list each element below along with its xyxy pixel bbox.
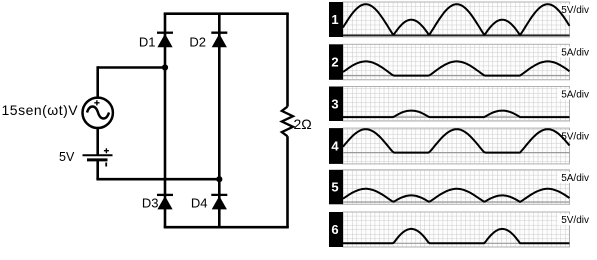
svg-text:1: 1	[331, 12, 338, 27]
diode D2	[211, 33, 227, 48]
scale label background panel 5	[558, 172, 590, 183]
svg-text:15sen(ωt)V: 15sen(ωt)V	[2, 102, 79, 118]
wire bottom rail	[164, 226, 289, 229]
channel number block 3	[329, 87, 343, 122]
wire top rail	[164, 12, 289, 15]
zero axis line panel 4	[343, 152, 570, 154]
scale label background panel 4	[558, 130, 590, 141]
wire source bottom horizontal	[96, 178, 219, 181]
zero axis line panel 1	[343, 34, 570, 36]
oscilloscope trace panel 4	[343, 128, 570, 164]
battery plus polarity mark	[104, 148, 109, 153]
wire right load branch upper segment	[286, 14, 289, 107]
svg-text:5A/div: 5A/div	[561, 90, 589, 101]
scale label background panel 2	[558, 47, 590, 58]
oscilloscope trace panel 2	[343, 44, 570, 80]
diode D3	[157, 195, 173, 210]
wire left bridge branch (D1/D3 leg)	[164, 14, 167, 228]
svg-text:2: 2	[331, 55, 338, 70]
svg-text:2Ω: 2Ω	[294, 116, 312, 132]
svg-text:D2: D2	[189, 34, 206, 49]
waveform trace 1	[343, 4, 570, 35]
scale label background panel 6	[558, 214, 590, 225]
AC source sine symbol	[87, 107, 109, 119]
svg-text:5V/div: 5V/div	[561, 5, 589, 16]
oscilloscope trace panel 1	[343, 2, 570, 37]
zero axis line panel 6	[343, 242, 570, 244]
wire battery to bottom horizontal	[96, 160, 99, 179]
oscilloscope trace panel 6	[343, 212, 570, 247]
waveform trace 4	[343, 129, 570, 152]
battery minus polarity mark	[105, 163, 107, 167]
svg-text:5: 5	[331, 180, 338, 195]
AC source plus polarity mark	[94, 100, 99, 105]
svg-text:5A/div: 5A/div	[561, 48, 589, 59]
channel number block 6	[329, 212, 343, 247]
wire source top horizontal	[98, 66, 165, 69]
scale label background panel 1	[558, 4, 590, 15]
wire right load branch lower segment	[286, 136, 289, 227]
svg-text:D1: D1	[139, 34, 156, 49]
node junction dot at source bottom / middle branch	[216, 176, 222, 182]
oscilloscope trace panel 3	[343, 87, 570, 122]
wire source vertical above AC source	[96, 66, 99, 97]
channel number block 2	[329, 44, 343, 80]
diode D1	[157, 33, 173, 48]
wire AC source to battery	[96, 128, 99, 155]
channel number block 5	[329, 170, 343, 205]
node junction dot at source top / left branch	[162, 64, 168, 70]
svg-text:4: 4	[331, 139, 339, 154]
svg-text:5V/div: 5V/div	[561, 131, 589, 142]
diode D4	[211, 195, 227, 210]
zero axis line panel 2	[343, 75, 570, 77]
waveform trace 5	[343, 189, 570, 202]
scale label background panel 3	[558, 89, 590, 100]
AC source V1 circle	[83, 98, 113, 128]
svg-text:D4: D4	[191, 195, 208, 210]
svg-text:D3: D3	[142, 195, 159, 210]
channel number block 4	[329, 128, 343, 164]
svg-text:3: 3	[331, 96, 338, 111]
battery BT1 5V long plate	[83, 154, 113, 156]
svg-text:5V/div: 5V/div	[561, 215, 589, 226]
battery BT1 5V short plate	[87, 158, 108, 161]
waveform trace 3	[343, 111, 570, 118]
channel number block 1	[329, 2, 343, 37]
oscilloscope trace panel 5	[343, 170, 570, 205]
waveform trace 2	[343, 61, 570, 75]
svg-text:5A/div: 5A/div	[561, 173, 589, 184]
zero axis line panel 3	[343, 116, 570, 118]
svg-text:5V: 5V	[59, 150, 75, 164]
wire middle bridge branch (D2/D4 leg)	[218, 14, 221, 228]
zero axis line panel 5	[343, 201, 570, 203]
waveform trace 6	[343, 229, 570, 243]
resistor R1 2ohm zigzag	[282, 107, 293, 137]
svg-text:6: 6	[331, 222, 338, 237]
